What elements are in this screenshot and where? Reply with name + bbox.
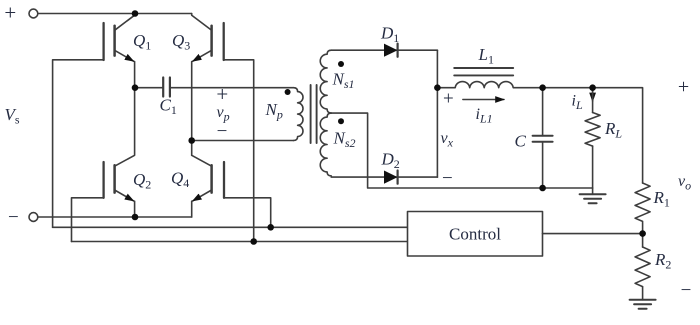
dot polarity Ns1	[338, 61, 344, 67]
node bus2 Q3 gate	[250, 238, 257, 245]
arrow iL1	[463, 99, 504, 101]
wire center tap return	[331, 113, 592, 188]
svg-text:Ns2: Ns2	[333, 128, 356, 150]
wire Q1 emitter down to node	[134, 62, 136, 88]
node negative rail Q2 emitter	[132, 214, 139, 221]
node C1 left	[132, 84, 139, 91]
svg-text:D2: D2	[381, 150, 400, 172]
svg-text:+: +	[443, 88, 454, 109]
gate bus2 wire	[72, 241, 408, 243]
resistor RL	[585, 88, 600, 188]
transistor Q2	[104, 88, 135, 201]
transformer secondary Ns1	[320, 50, 331, 113]
dot polarity Np	[285, 89, 291, 95]
wire R1 to R2	[642, 222, 644, 247]
gate bus1 wire	[53, 226, 408, 228]
node top rail Q1 collector	[132, 10, 139, 17]
wire primary bottom	[192, 140, 294, 142]
svg-text:−: −	[442, 168, 453, 189]
wire output rail	[543, 88, 643, 183]
capacitor C1	[135, 78, 170, 97]
svg-text:D1: D1	[380, 23, 399, 45]
wire control output	[543, 233, 643, 235]
capacitor C	[533, 88, 553, 188]
svg-text:Ns1: Ns1	[332, 69, 355, 91]
svg-text:L1: L1	[478, 45, 494, 67]
diode D1	[384, 44, 398, 57]
wire C1 to primary top	[170, 87, 294, 89]
node - terminal negative	[29, 213, 38, 222]
resistor R2	[635, 247, 650, 287]
svg-text:iL1: iL1	[476, 106, 493, 126]
transformer core	[311, 85, 317, 143]
wire Q1 gate to bus1	[53, 60, 104, 228]
node + terminal positive	[29, 9, 38, 18]
svg-text:vx: vx	[441, 130, 454, 150]
dot polarity Ns2	[338, 118, 344, 124]
node vx	[434, 84, 441, 91]
wire Q2 emitter to rail	[134, 201, 136, 217]
node bus1 Q4 gate	[267, 224, 274, 231]
ground R2	[630, 287, 656, 309]
control box	[408, 212, 543, 257]
svg-text:−: −	[681, 280, 692, 301]
svg-text:RL: RL	[604, 119, 622, 141]
svg-text:vo: vo	[678, 173, 691, 193]
svg-text:C1: C1	[160, 95, 177, 117]
transistor Q1	[104, 14, 135, 62]
svg-text:Q4: Q4	[171, 169, 189, 191]
transformer primary Np	[294, 88, 303, 141]
svg-text:Q1: Q1	[133, 31, 151, 53]
wire secondary bottom to D2	[331, 176, 437, 178]
diode D2	[384, 171, 398, 184]
node R1 R2 junction	[639, 230, 646, 237]
wire vx vertical	[436, 50, 438, 177]
transistor Q4	[192, 155, 224, 201]
node RL top	[589, 84, 596, 91]
inductor L1 core bars	[454, 68, 513, 75]
svg-text:C: C	[515, 131, 527, 150]
svg-text:+: +	[678, 76, 689, 98]
ground RL	[580, 188, 606, 203]
svg-text:Q2: Q2	[133, 170, 151, 192]
svg-text:Q3: Q3	[172, 31, 190, 53]
wire top rail	[38, 13, 192, 15]
svg-text:iL: iL	[572, 93, 583, 113]
transistor Q3	[192, 14, 224, 62]
svg-text:R1: R1	[653, 188, 670, 210]
svg-text:−: −	[217, 121, 228, 142]
node C top	[539, 84, 546, 91]
wire Q4 gate to bus1	[224, 198, 271, 228]
svg-text:+: +	[4, 0, 16, 24]
resistor R1	[635, 183, 650, 221]
wire negative rail	[38, 216, 192, 218]
node C bottom	[539, 185, 546, 192]
wire Q4 emitter to rail	[191, 201, 193, 217]
wire secondary top to D1	[331, 49, 437, 51]
svg-text:−: −	[8, 207, 19, 228]
svg-text:Vs: Vs	[5, 105, 20, 127]
wire Q2 gate to bus2	[72, 198, 104, 242]
wire Q3 emitter down to primary node	[191, 62, 193, 156]
arrow iL	[592, 90, 594, 102]
inductor L1	[437, 82, 542, 88]
transformer secondary Ns2	[320, 113, 331, 176]
node primary bottom	[188, 137, 195, 144]
svg-text:Control: Control	[449, 224, 501, 243]
svg-text:+: +	[216, 82, 228, 106]
wire Q3 gate to bus2	[224, 60, 254, 242]
svg-text:Np: Np	[265, 100, 283, 122]
svg-text:R2: R2	[654, 250, 671, 272]
